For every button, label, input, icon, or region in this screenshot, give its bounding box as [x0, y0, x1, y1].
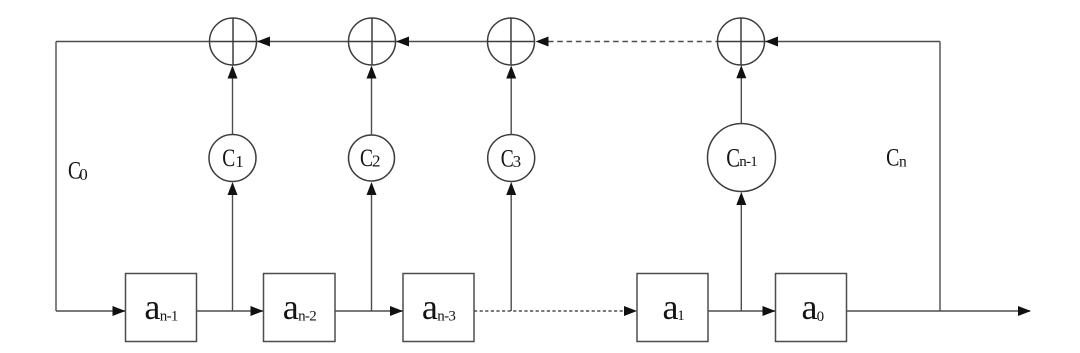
svg-text:a: a: [802, 287, 818, 327]
wire C3 to XOR3: [510, 67, 512, 135]
label a_n-1: [144, 287, 177, 327]
svg-text:0: 0: [79, 165, 88, 184]
svg-text:n-2: n-2: [298, 309, 316, 325]
xor gate X4: [718, 18, 765, 65]
label Cn-1: [726, 144, 757, 173]
arrowhead up into XOR4 bottom: [736, 65, 746, 78]
wire a_0 to output: [847, 310, 1031, 312]
svg-text:n-1: n-1: [739, 154, 757, 170]
wire bottom left into a_n-1: [56, 310, 126, 312]
wire C2 to XOR2: [371, 67, 373, 135]
wire a_1 to a_0: [708, 310, 776, 312]
svg-text:a: a: [144, 287, 160, 327]
wire a_n-2 to a_n-3: [335, 310, 403, 312]
xor gate X2: [349, 18, 396, 65]
arrowhead into XOR3 right: [536, 37, 549, 47]
arrowhead into a_n-1: [113, 306, 126, 316]
label a_1: [663, 287, 685, 327]
multiplier C3 circle: [488, 135, 535, 182]
register box a_n-3: [403, 274, 474, 342]
arrowhead output right: [1018, 306, 1031, 316]
wire top between XOR2 and XOR3: [396, 41, 488, 43]
arrowhead up into C3: [506, 182, 516, 195]
arrowhead into XOR2 right: [396, 37, 409, 47]
arrowhead into XOR4 right: [765, 37, 778, 47]
svg-text:C: C: [726, 144, 740, 173]
svg-text:n-3: n-3: [437, 309, 455, 325]
arrowhead up into XOR3 bottom: [506, 66, 516, 79]
arrowhead up into Cn-1: [736, 192, 746, 205]
wire top dashed between XOR3 and XOR4: [548, 41, 718, 43]
wire C1 to XOR1: [232, 67, 234, 135]
wire Cn-1 to XOR4: [740, 67, 742, 124]
wire dashed a_n-3 to a_1: [474, 310, 630, 312]
label a_n-2: [283, 287, 316, 327]
svg-text:n-1: n-1: [160, 309, 178, 325]
arrowhead into a_n-2: [251, 306, 264, 316]
register box a_n-1: [126, 274, 197, 342]
wire Cn-1 tap vertical: [740, 194, 742, 311]
arrowhead up into C2: [367, 182, 377, 195]
label C2: [360, 144, 381, 172]
svg-text:1: 1: [677, 308, 685, 324]
wire top between XOR4 and right corner: [765, 41, 941, 43]
wire top feedback left segment: [56, 41, 210, 43]
xor gate X3: [488, 18, 535, 65]
register box a_0: [776, 274, 847, 342]
svg-text:2: 2: [372, 152, 381, 171]
xor gate X1: [210, 18, 257, 65]
svg-text:1: 1: [235, 152, 244, 171]
arrowhead into a_1: [624, 306, 637, 316]
label C3: [501, 144, 521, 172]
svg-text:3: 3: [513, 152, 522, 171]
arrowhead up into XOR1 bottom: [228, 66, 238, 79]
multiplier Cn-1 circle: [708, 124, 776, 192]
label C1: [222, 144, 244, 172]
wire top between XOR1 and XOR2: [257, 41, 349, 43]
wire C3 tap vertical: [510, 184, 512, 311]
label a_0: [802, 287, 825, 327]
svg-text:C: C: [222, 144, 235, 172]
label C0: [68, 156, 88, 184]
register box a_n-2: [264, 274, 336, 342]
svg-text:C: C: [886, 143, 899, 171]
svg-text:0: 0: [817, 309, 825, 325]
wire C2 tap vertical: [371, 184, 373, 311]
svg-text:a: a: [422, 287, 438, 327]
wire C1 tap vertical: [232, 184, 234, 311]
arrowhead into a_n-3: [390, 306, 403, 316]
svg-text:a: a: [663, 287, 679, 327]
svg-text:a: a: [283, 287, 299, 327]
arrowhead into a_0: [763, 306, 776, 316]
register box a_1: [637, 274, 708, 342]
wire right vertical Cn branch: [939, 42, 941, 312]
svg-text:n: n: [899, 154, 907, 171]
wire left vertical C0 branch: [55, 42, 57, 312]
wire a_n-1 to a_n-2: [197, 310, 264, 312]
arrowhead up into XOR2 bottom: [367, 66, 377, 79]
arrowhead into XOR1 right: [257, 37, 270, 47]
arrowhead up into C1: [228, 182, 238, 195]
label a_n-3: [422, 287, 455, 327]
multiplier C1 circle: [209, 135, 256, 182]
multiplier C2 circle: [349, 135, 395, 181]
label Cn: [886, 143, 907, 171]
